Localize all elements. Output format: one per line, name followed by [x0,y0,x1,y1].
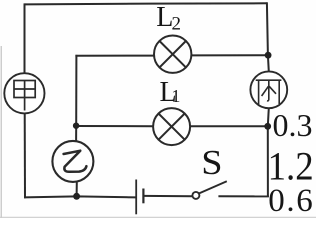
wire inner rail vertical [75,55,77,142]
svg-text:S: S [201,143,222,182]
wire right rail upper [267,2,269,71]
svg-text:0.3: 0.3 [273,107,313,143]
node D2 junction [264,123,271,130]
switch S pivot [192,192,199,199]
svg-text:1: 1 [171,86,180,106]
node D4 junction [73,193,80,200]
lamp L2 [154,36,191,73]
svg-text:0.6: 0.6 [268,183,314,218]
battery short plate [142,189,144,204]
wire left rail upper [24,3,26,73]
svg-text:1.2: 1.2 [268,144,314,189]
wire bottom left segment [24,196,136,197]
svg-text:2: 2 [172,13,182,34]
meter 甲 [4,73,44,113]
switch S lever [199,181,227,193]
lamp L1 [153,108,190,145]
battery long plate [135,180,137,215]
lamp L2 right wire [191,54,268,56]
wire bottom middle segment [143,195,192,197]
lamp L2 left wire [75,55,154,57]
node D3 junction [73,123,79,129]
wire 乙 to bottom [76,182,78,196]
wire left rail lower [24,113,26,198]
node D1 junction [265,52,272,59]
scan edge artifact left [0,46,2,218]
wire right rail lower [268,108,269,197]
wire bottom right segment [218,195,269,197]
wire top [25,3,267,4]
meter 乙 [52,141,93,182]
lamp L1 left wire [76,125,153,127]
scan edge artifact bottom [0,216,316,218]
meter 丙 [250,71,287,108]
lamp L1 right wire [190,125,268,127]
